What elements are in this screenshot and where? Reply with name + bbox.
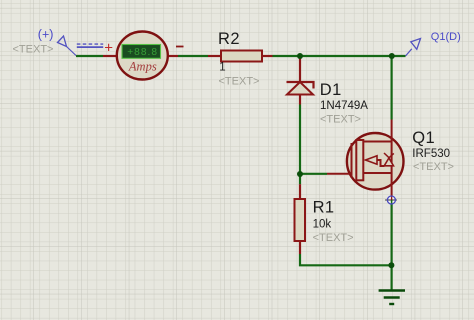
svg-text:<TEXT>: <TEXT>: [219, 76, 260, 88]
svg-text:IRF530: IRF530: [412, 148, 450, 160]
svg-text:Q1(D): Q1(D): [431, 31, 461, 43]
svg-text:D1: D1: [320, 81, 342, 99]
svg-text:(+): (+): [38, 28, 54, 42]
svg-text:Q1: Q1: [412, 129, 435, 147]
svg-text:1N4749A: 1N4749A: [320, 100, 368, 112]
svg-text:+88.8: +88.8: [127, 47, 158, 58]
svg-text:<TEXT>: <TEXT>: [313, 232, 354, 244]
svg-text:<TEXT>: <TEXT>: [413, 161, 454, 173]
svg-text:R2: R2: [218, 30, 240, 48]
svg-text:Amps: Amps: [128, 60, 157, 74]
svg-text:1: 1: [219, 62, 225, 74]
svg-text:+: +: [104, 39, 113, 56]
svg-text:<TEXT>: <TEXT>: [320, 113, 361, 125]
svg-text:<TEXT>: <TEXT>: [13, 43, 54, 55]
svg-text:10k: 10k: [313, 219, 332, 231]
svg-text:R1: R1: [313, 198, 335, 216]
